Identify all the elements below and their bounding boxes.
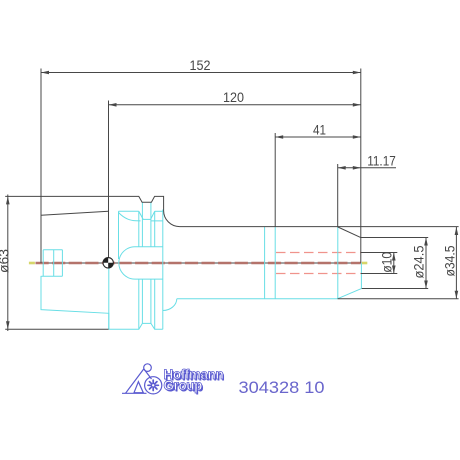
dimension line 11.17 [338, 167, 396, 169]
arrowheads dia10 [392, 253, 396, 261]
groove V wall left (cyan) [139, 211, 155, 219]
flange left face bottom half (cyan) [108, 263, 110, 329]
shank end face + ext line 152 left [40, 69, 42, 264]
groove edge verticals bottom (cyan) [139, 279, 155, 329]
nose chamfer top (contour) [338, 227, 361, 238]
logo gear spokes [148, 380, 158, 390]
arrowheads dia24.5 [424, 238, 428, 246]
center mark symbol [103, 258, 113, 268]
dimension line dia24.5 [425, 238, 427, 289]
tool end face + right ext line [360, 69, 362, 264]
shank taper top (contour) [41, 211, 109, 215]
nose chamfer bottom (cyan) [338, 289, 362, 299]
flange top with V-groove and fillet to body top + dia34.5 ext (contour) [5, 196, 458, 226]
centerline base (dark) [41, 262, 361, 264]
nose edge vertical (cyan) [337, 227, 339, 298]
svg-text:ø63: ø63 [0, 249, 12, 273]
dimension line dia34.5 [455, 227, 457, 299]
svg-text:120: 120 [223, 90, 244, 105]
svg-text:ø10: ø10 [380, 252, 395, 273]
arrowheads 152 [41, 71, 49, 75]
Hoffmann Group logo icon [122, 364, 162, 394]
dia34.5 bottom ext line [338, 298, 459, 300]
dimension line 152 [41, 72, 361, 74]
bore hidden line top (pink dashed) [276, 252, 361, 254]
arrowheads 11.17 [338, 166, 346, 170]
ext line 11.17 left [337, 164, 339, 227]
svg-text:Group: Group [164, 378, 203, 393]
flange top detail left horizontal (cyan) [119, 210, 139, 212]
bore hidden line bottom (pink dashed) [276, 273, 361, 275]
nose end face bottom half (cyan) [360, 263, 362, 289]
dimension line dia10 [393, 253, 395, 274]
flange top detail right horizontal (cyan) [155, 210, 163, 212]
dimension line 120 [109, 104, 361, 106]
coolant collar capsule (cyan) [119, 247, 163, 279]
centerline red dashes [36, 262, 362, 265]
dia10 bottom ext line [361, 273, 398, 275]
dimension line 41 [275, 136, 361, 138]
body joint vertical 2 (cyan) [274, 227, 276, 299]
arrowheads 41 [275, 135, 283, 139]
arrowheads dia34.5 [455, 227, 459, 235]
body bottom line (cyan) [177, 298, 338, 300]
body joint vertical 1 (cyan) [264, 227, 266, 299]
groove edge verticals top (cyan) [139, 202, 155, 246]
flange step vertical (cyan) [118, 211, 120, 259]
svg-text:ø24.5: ø24.5 [412, 246, 427, 279]
flange face + ext line 120 left [108, 101, 110, 264]
flange bottom edge with groove notch (cyan) [109, 323, 163, 329]
logo text Hoffmann [164, 367, 225, 394]
svg-text:41: 41 [313, 123, 326, 138]
ext line 41 left [274, 133, 276, 227]
coolant tube detail rectangle (cyan) [42, 250, 63, 276]
flange right face (cyan) [162, 210, 164, 330]
svg-text:304328 10: 304328 10 [239, 379, 325, 397]
arrowheads dia63 [6, 196, 10, 204]
dia24.5 top ext line [361, 237, 428, 239]
dia24.5 bottom ext line [362, 288, 429, 290]
arrowheads 120 [109, 103, 117, 107]
dimension line dia63 [7, 195, 9, 332]
shank bottom outline (cyan) [41, 276, 109, 329]
svg-text:ø34.5: ø34.5 [443, 246, 458, 277]
gripper groove root scoop (cyan) [119, 213, 163, 221]
centerline yellow end dash right [362, 262, 368, 265]
fillet flange to body bottom (cyan) [163, 299, 177, 311]
svg-text:152: 152 [190, 58, 211, 73]
svg-text:11.17: 11.17 [367, 154, 396, 169]
dia63 bottom ext line [5, 328, 108, 330]
centerline yellow end dash left [29, 262, 35, 265]
dia10 top ext line [361, 252, 398, 254]
